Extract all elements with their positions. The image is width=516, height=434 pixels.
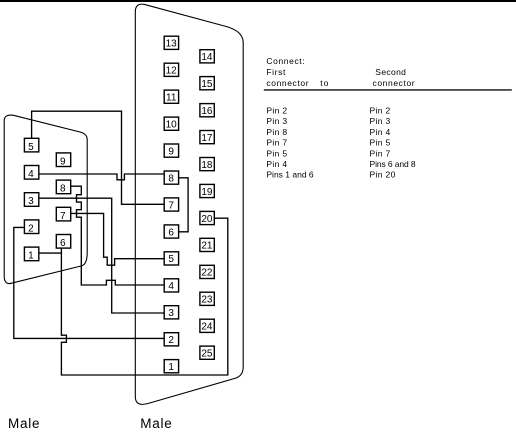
svg-text:Pin 2: Pin 2 — [370, 106, 391, 116]
svg-text:5: 5 — [28, 142, 34, 153]
pin J2.3 — [164, 306, 178, 319]
svg-text:17: 17 — [201, 133, 213, 144]
svg-text:Pin 4: Pin 4 — [266, 159, 287, 169]
pin J2.13 — [164, 36, 178, 49]
pin J1.3 — [24, 193, 38, 208]
svg-text:connector: connector — [266, 78, 309, 88]
svg-text:6: 6 — [168, 227, 174, 238]
svg-text:7: 7 — [60, 211, 66, 222]
svg-text:11: 11 — [166, 93, 177, 104]
pin J2.6 — [164, 225, 178, 238]
pin J1.9 — [56, 153, 70, 168]
pin J2.9 — [164, 144, 178, 157]
wire J1.2 to J2.2 — [14, 227, 164, 338]
svg-text:Pin 2: Pin 2 — [266, 106, 287, 116]
connector J1 (DB9 male) outline — [4, 115, 87, 284]
svg-text:7: 7 — [168, 200, 174, 211]
svg-text:18: 18 — [201, 160, 213, 171]
pin J1.8 — [56, 180, 70, 195]
svg-text:Male: Male — [8, 416, 40, 431]
svg-text:Pins 1 and 6: Pins 1 and 6 — [266, 170, 314, 180]
wire J1.5 to J2.7 — [32, 111, 165, 204]
pin J1.1 — [24, 247, 38, 262]
pin J2.2 — [164, 333, 178, 346]
svg-text:4: 4 — [28, 169, 34, 180]
svg-text:Pins 6 and 8: Pins 6 and 8 — [370, 159, 416, 169]
svg-text:3: 3 — [168, 308, 174, 319]
svg-text:Pin 3: Pin 3 — [266, 116, 287, 126]
pin J2.5 — [164, 252, 178, 265]
pin J2.18 — [200, 158, 214, 171]
pin J2.21 — [200, 238, 214, 251]
svg-text:20: 20 — [201, 214, 213, 225]
pin J2.19 — [200, 184, 214, 197]
pin J2.10 — [164, 117, 178, 130]
svg-text:12: 12 — [166, 66, 178, 77]
svg-text:23: 23 — [201, 295, 213, 306]
svg-text:to: to — [320, 78, 329, 88]
svg-text:1: 1 — [168, 362, 174, 373]
wire J1.3 to J2.3 — [39, 198, 164, 313]
svg-text:4: 4 — [168, 281, 174, 292]
pin J2.7 — [164, 198, 178, 211]
svg-text:connector: connector — [373, 78, 416, 88]
svg-text:Pin 7: Pin 7 — [266, 138, 287, 148]
wire J1.6 and J1.1 to J2.20 (with hop over J1.2 wire) — [61, 218, 227, 375]
svg-text:Connect:: Connect: — [266, 56, 305, 66]
wire J1.7 to J2.5 (with hop over vertical of J1.3 wire) — [71, 213, 165, 265]
svg-text:Pin 5: Pin 5 — [370, 138, 391, 148]
svg-text:16: 16 — [201, 106, 213, 117]
svg-text:13: 13 — [166, 39, 178, 50]
pin J1.5 — [24, 138, 38, 153]
svg-text:2: 2 — [28, 223, 34, 234]
pin J1.2 — [24, 220, 38, 235]
svg-text:19: 19 — [201, 187, 213, 198]
pin J2.22 — [200, 265, 214, 278]
svg-text:24: 24 — [201, 322, 213, 333]
svg-text:25: 25 — [201, 349, 213, 360]
top border bar — [0, 0, 516, 2]
pin J1.6 — [56, 235, 70, 250]
pin J2.12 — [164, 63, 178, 76]
pin J2.4 — [164, 279, 178, 292]
pin J1.7 — [56, 207, 70, 222]
pin J2.14 — [200, 50, 214, 63]
pin J2.17 — [200, 131, 214, 144]
wire J1.8 to J2.4 (with hops over J1.3 and J1.7 wires and over vertical of J1.3 wire) — [71, 186, 165, 285]
svg-text:Pin 7: Pin 7 — [370, 148, 391, 158]
pin J2.1 — [164, 360, 178, 373]
svg-text:9: 9 — [60, 156, 66, 167]
svg-text:First: First — [266, 67, 286, 77]
svg-text:10: 10 — [166, 120, 178, 131]
svg-text:22: 22 — [201, 268, 213, 279]
pin J2.11 — [164, 90, 178, 103]
pin J2.8 — [164, 171, 178, 184]
table header rule — [264, 89, 512, 90]
svg-text:Second: Second — [375, 67, 406, 77]
svg-text:8: 8 — [168, 173, 174, 184]
pin J1.4 — [24, 166, 38, 181]
svg-text:Pin 5: Pin 5 — [266, 148, 287, 158]
pin J2.20 — [200, 211, 214, 224]
pin J2.15 — [200, 77, 214, 90]
connector J2 (DB25 male) outline — [135, 4, 243, 404]
svg-text:15: 15 — [201, 79, 213, 90]
pin J2.25 — [200, 346, 214, 359]
svg-text:Pin 20: Pin 20 — [370, 170, 396, 180]
svg-text:1: 1 — [28, 251, 34, 262]
svg-text:Pin 8: Pin 8 — [266, 127, 287, 137]
svg-text:Male: Male — [140, 416, 172, 431]
svg-text:3: 3 — [28, 196, 34, 207]
pin J2.23 — [200, 292, 214, 305]
wire jumper J2.8 to J2.6 — [179, 178, 189, 232]
svg-text:6: 6 — [60, 238, 66, 249]
pin J2.16 — [200, 104, 214, 117]
pin J2.24 — [200, 319, 214, 332]
svg-text:9: 9 — [168, 146, 174, 157]
svg-text:14: 14 — [201, 52, 213, 63]
svg-text:8: 8 — [60, 184, 66, 195]
svg-text:21: 21 — [201, 241, 213, 252]
svg-text:Pin 4: Pin 4 — [370, 127, 391, 137]
wire J1.1 to junction with J1.6 wire — [39, 252, 62, 254]
svg-text:2: 2 — [168, 335, 174, 346]
svg-text:5: 5 — [168, 254, 174, 265]
svg-text:Pin 3: Pin 3 — [370, 116, 391, 126]
wire J1.4 to J2.8 (with hop over J1.5 wire) — [39, 174, 164, 180]
